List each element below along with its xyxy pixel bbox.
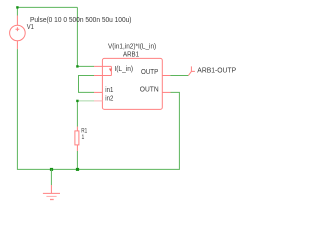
resistor R1 top lead (red)	[76, 127, 78, 131]
svg-text:ARB1: ARB1	[123, 52, 139, 59]
ground symbol bar 3	[50, 199, 54, 201]
wire A: vertical drop x=77.4 to current sense pin	[77, 7, 94, 66]
svg-text:Pulse(0 10 0 500n 500n 50u 100: Pulse(0 10 0 500n 500n 50u 100u)	[30, 17, 132, 24]
ARB1 current sense arrowhead	[109, 69, 112, 72]
ARB1 pin in2 stub (pale red)	[94, 100, 102, 102]
wire V1 bottom to ground bus, bus to right, up to OUTN stub	[17, 49, 179, 169]
wire B: from sense pin bottom around to in1	[79, 76, 95, 93]
node junction dot resistor-bus (77.4,169.4)	[76, 168, 79, 171]
svg-text:in1: in1	[105, 87, 113, 94]
node junction dot ground-bus (51.4,169.4)	[50, 168, 53, 171]
node junction dot at (77.4,100.9)	[76, 100, 78, 102]
terminal ARB1-OUTP symbol	[188, 66, 195, 75]
block ARB1 body	[102, 58, 162, 109]
wire V1 top lead (green part)	[16, 7, 18, 15]
wire OUTP to terminal	[170, 75, 188, 77]
ground symbol bar 1	[43, 192, 60, 194]
node junction dot at (17.4,7.4)	[16, 6, 18, 8]
ARB1 pin OUTP stub (red)	[162, 75, 170, 77]
wire C vertical down to resistor	[76, 101, 78, 127]
voltage source V1 top lead (red)	[16, 16, 18, 26]
voltage source V1 plus sign	[16, 27, 20, 31]
resistor R1 body box	[75, 131, 79, 145]
ARB1 current sense pin bottom line	[94, 75, 111, 77]
wire top from V1 to vertical drop	[17, 6, 77, 8]
ground symbol bar 2	[46, 195, 56, 197]
voltage source V1 circle	[10, 25, 26, 41]
svg-text:OUTN: OUTN	[140, 86, 159, 93]
svg-text:I(L_in): I(L_in)	[114, 66, 133, 73]
ARB1 pin OUTN stub (red)	[162, 91, 170, 93]
ARB1 current sense arrow vertical	[110, 66, 112, 75]
svg-text:OUTP: OUTP	[141, 69, 158, 76]
wire C: in2 wire (pale)	[77, 100, 94, 102]
svg-text:1: 1	[82, 134, 85, 141]
ARB1 current sense pin top line	[94, 65, 111, 67]
wire resistor bottom to bus	[76, 151, 78, 169]
ARB1 pin in1 stub (red)	[94, 91, 102, 93]
node junction dot at (77.4,66.4)	[76, 65, 78, 67]
svg-text:in2: in2	[105, 95, 113, 102]
ground symbol stem (red)	[50, 185, 52, 193]
wire ground stem (green)	[50, 169, 52, 185]
resistor R1 bottom lead (red)	[76, 145, 78, 151]
voltage source V1 bottom lead (red)	[16, 41, 18, 49]
svg-text:V1: V1	[27, 24, 34, 31]
svg-text:V(in1,in2)*I(L_in): V(in1,in2)*I(L_in)	[108, 43, 156, 50]
svg-text:ARB1-OUTP: ARB1-OUTP	[197, 67, 236, 74]
